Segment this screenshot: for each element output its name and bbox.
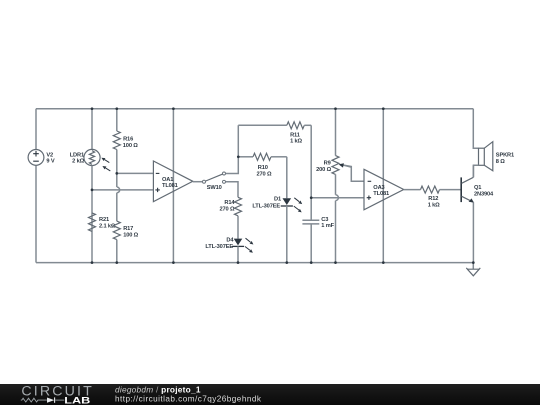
wire LDR top <box>91 109 93 150</box>
resistor R17 <box>113 221 138 240</box>
junction bottom rail to OA1 supply <box>172 261 175 264</box>
resistor R16 <box>113 131 138 150</box>
wire OA1 supply <box>172 109 174 263</box>
wire D4 to bottom rail <box>237 246 239 262</box>
wire Q1 emitter down to rail <box>472 202 474 262</box>
wire switch throw B to R14 <box>226 182 238 198</box>
wire OA3 supply <box>382 109 384 263</box>
wire left rail lower <box>35 165 37 262</box>
junction bottom rail to Q1 emitter and ground <box>472 261 475 264</box>
junction node R11/C3/OA3 +in <box>310 196 313 199</box>
capacitor C3 1mF <box>302 217 334 263</box>
junction top rail to R9 <box>334 107 337 110</box>
LED D1 LTL-307EE <box>252 197 302 213</box>
op-amp OA1 TL081 <box>153 161 192 202</box>
svg-text:V2: V2 <box>46 152 53 158</box>
svg-text:LAB: LAB <box>64 395 90 405</box>
svg-text:270 Ω: 270 Ω <box>220 206 235 212</box>
wire LDR bottom <box>91 166 93 263</box>
switch SW10 <box>203 172 226 191</box>
wire bottom rail <box>36 262 473 264</box>
speaker SPKR1 <box>479 142 515 171</box>
svg-text:1 kΩ: 1 kΩ <box>290 138 302 144</box>
wire R9 top <box>335 109 337 156</box>
wire top rail <box>36 108 473 110</box>
svg-text:9 V: 9 V <box>46 159 54 165</box>
svg-text:LDR1: LDR1 <box>70 152 84 158</box>
junction bottom rail to R21 <box>91 261 94 264</box>
svg-text:SW10: SW10 <box>207 185 222 191</box>
svg-text:R17: R17 <box>123 226 133 232</box>
junction bottom rail to R17 <box>115 261 118 264</box>
wire OA1 non-inverting input <box>92 189 153 191</box>
svg-text:R16: R16 <box>123 137 133 143</box>
svg-text:D1: D1 <box>274 197 281 203</box>
potentiometer R9 <box>316 156 364 182</box>
svg-text:100 Ω: 100 Ω <box>123 232 138 238</box>
svg-text:diegobdm / projeto_1: diegobdm / projeto_1 <box>115 385 201 395</box>
ground <box>466 263 480 276</box>
wire R14 to D4 <box>237 216 239 239</box>
svg-text:LTL-307EE: LTL-307EE <box>252 203 280 209</box>
svg-text:1 mF: 1 mF <box>321 223 334 229</box>
wire speaker bottom lead <box>473 165 478 177</box>
voltage source V2 <box>28 150 55 166</box>
junction top rail to OA3 supply <box>382 107 385 110</box>
op-amp OA3 TL081 <box>364 169 404 210</box>
junction node R10/R11/SW10 <box>237 155 240 158</box>
junction top rail to LDR1 <box>91 107 94 110</box>
junction bottom rail to C3 <box>310 261 313 264</box>
wire OA1 output <box>193 181 202 183</box>
svg-text:2 kΩ: 2 kΩ <box>72 159 84 165</box>
junction node R16/R17/OA1 -in <box>115 172 118 175</box>
wire OA1 inverting input <box>117 172 154 174</box>
wire R12 to Q1 base <box>440 189 461 191</box>
svg-text:SPKR1: SPKR1 <box>496 153 514 159</box>
resistor R11 <box>238 122 311 145</box>
junction node LDR1/R21/OA1 +in <box>91 189 94 192</box>
photoresistor LDR1 <box>70 149 111 171</box>
svg-text:R10: R10 <box>258 165 268 171</box>
wire R16 to R17 with hop over + wire <box>117 150 120 222</box>
resistor R14 <box>220 197 242 216</box>
resistor R10 <box>238 153 286 177</box>
wire speaker top lead <box>473 109 478 149</box>
LED D4 LTL-307EE <box>205 237 253 253</box>
footer bar <box>0 383 540 405</box>
svg-text:http://circuitlab.com/c7qy26bg: http://circuitlab.com/c7qy26bgehndk <box>115 395 262 404</box>
svg-text:2N3904: 2N3904 <box>474 192 494 198</box>
svg-text:LTL-307EE: LTL-307EE <box>205 244 233 250</box>
wire R17 bottom <box>116 240 118 263</box>
svg-text:2.1 kΩ: 2.1 kΩ <box>99 224 116 230</box>
svg-text:R12: R12 <box>428 196 438 202</box>
svg-text:R14: R14 <box>224 200 235 206</box>
resistor R12 <box>421 186 441 209</box>
junction top rail to R16 <box>115 107 118 110</box>
wire switch throw A to R10/R11 node <box>226 125 239 173</box>
svg-text:270 Ω: 270 Ω <box>257 172 272 178</box>
svg-text:200 Ω: 200 Ω <box>316 167 331 173</box>
junction bottom rail to D4 <box>237 261 240 264</box>
wire Q1 collector up to speaker <box>472 165 474 177</box>
svg-text:R21: R21 <box>99 217 109 223</box>
transistor Q1 2N3904 <box>461 177 494 202</box>
wire R16 column top <box>116 109 118 131</box>
junction bottom rail to R9 <box>334 261 337 264</box>
wire R9 bottom with hop over + wire <box>336 174 339 262</box>
svg-text:100 Ω: 100 Ω <box>123 143 138 149</box>
svg-text:Q1: Q1 <box>474 185 481 191</box>
junction bottom rail to D1 <box>285 261 288 264</box>
svg-text:TL081: TL081 <box>162 183 178 189</box>
junction bottom rail to OA3 supply <box>382 261 385 264</box>
resistor R21 <box>89 213 116 232</box>
wire R10 down to D1 <box>286 157 288 198</box>
svg-text:8 Ω: 8 Ω <box>496 159 505 165</box>
junction top rail to OA1 supply <box>172 107 175 110</box>
wire D1 to bottom rail <box>286 206 288 263</box>
svg-text:R9: R9 <box>324 160 331 166</box>
wire left rail upper <box>35 109 37 150</box>
svg-text:1 kΩ: 1 kΩ <box>428 203 440 209</box>
wire R11 right end down to C3 node <box>310 125 312 220</box>
wire OA3 non-inverting input with hop <box>311 197 364 199</box>
wire OA3 output <box>404 189 421 191</box>
svg-text:TL081: TL081 <box>373 191 389 197</box>
svg-text:D4: D4 <box>226 237 234 243</box>
